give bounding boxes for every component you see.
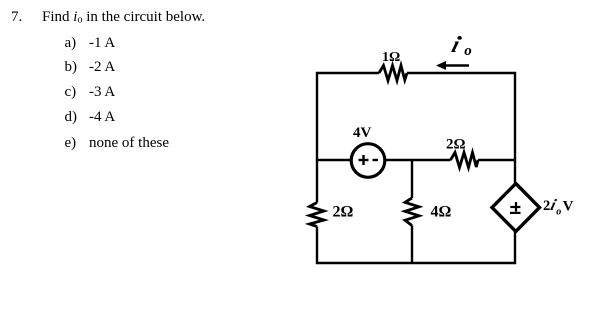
wire: bottom	[316, 262, 516, 264]
svg-text:2Ω: 2Ω	[333, 204, 354, 221]
resistor 1Ω (top wire)	[379, 66, 407, 81]
svg-text:o: o	[556, 206, 561, 217]
wire: middle horizontal, source to 2Ω	[385, 159, 451, 161]
option b	[65, 60, 78, 75]
label 2Ω (left)	[333, 204, 354, 221]
wire: right branch lower	[514, 230, 516, 264]
option d	[65, 110, 78, 125]
current arrow io	[436, 61, 469, 70]
resistor 2Ω (left branch)	[310, 203, 325, 227]
label 2Ω (middle)	[446, 137, 466, 153]
svg-text:i: i	[449, 32, 463, 57]
wire: middle vertical branch upper	[411, 159, 413, 198]
svg-text:o: o	[464, 43, 472, 59]
option c	[65, 85, 77, 100]
label 4V	[353, 125, 372, 141]
wire: middle horizontal, left of source	[317, 159, 351, 161]
label 4Ω	[431, 204, 452, 221]
label 1Ω	[382, 50, 400, 65]
dependent voltage source 2io V (diamond)	[492, 184, 540, 232]
svg-text:4V: 4V	[353, 125, 372, 141]
wire: middle vertical branch lower	[411, 226, 413, 265]
wire: middle horizontal, 2Ω to right branch	[478, 159, 516, 161]
svg-text:2Ω: 2Ω	[446, 137, 466, 153]
label io	[449, 32, 472, 59]
wire: top left segment	[316, 72, 379, 74]
question number	[11, 10, 22, 25]
svg-text:V: V	[563, 198, 574, 214]
resistor 4Ω (middle branch)	[405, 198, 419, 226]
voltage source 4V	[351, 144, 385, 178]
option a	[65, 36, 77, 51]
svg-text:1Ω: 1Ω	[382, 50, 400, 65]
question text	[42, 10, 205, 28]
option e	[65, 136, 77, 151]
label 2io V	[543, 195, 574, 217]
resistor 2Ω (middle wire)	[451, 153, 479, 168]
wire: right branch upper	[514, 72, 516, 185]
svg-text:4Ω: 4Ω	[431, 204, 452, 221]
wire: left branch upper	[316, 72, 318, 203]
wire: left branch lower	[316, 227, 318, 265]
wire: top right segment	[407, 72, 516, 74]
